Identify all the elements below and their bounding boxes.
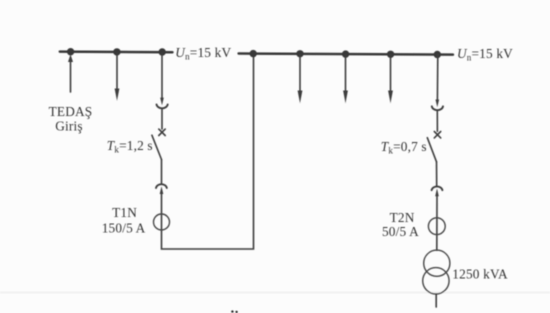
transformer TR1 secondary winding (423, 268, 449, 294)
node on busbar 1 at breaker feeder (159, 48, 166, 55)
feeder down arrow on busbar 1 (116, 53, 118, 90)
svg-text:T2N: T2N (390, 210, 415, 225)
node on busbar 1 at feeder arrow (113, 48, 120, 55)
scan artifact band (0, 292, 550, 294)
breaker B2 drawout contact (top): arrow into cup (436, 100, 440, 108)
breaker B2 drawout contact (bottom): cup with arrow up (432, 186, 443, 190)
CT T2N circle (428, 218, 445, 235)
busbar 2 (15 kV, right) (239, 54, 453, 55)
wire through CT to corner, up to busbar 2 (162, 55, 254, 250)
svg-text:150/5 A: 150/5 A (102, 221, 146, 236)
svg-text:Un=15 kV: Un=15 kV (175, 45, 231, 62)
transformer TR1 primary winding (424, 250, 450, 276)
wire (161, 109, 163, 129)
breaker B1 blade (open) (152, 135, 162, 159)
wire (436, 162, 438, 187)
busbar 1 (15 kV, left) (60, 50, 173, 53)
wire (436, 111, 438, 131)
node busbar2 incoming (250, 50, 257, 57)
smudge artifact (231, 310, 233, 312)
svg-text:Giriş: Giriş (55, 119, 83, 134)
node busbar2 feeder2 (342, 50, 349, 57)
wire through CT down to transformer (436, 196, 438, 250)
wire (161, 160, 163, 185)
busbar2 feeder down arrow 1 (299, 55, 301, 92)
breaker B1 drawout contact (bottom): cup with arrow up (156, 184, 167, 188)
wire: busbar1 to breaker B1 (161, 53, 163, 99)
breaker B1 fixed contact x (159, 129, 165, 135)
svg-text:TEDAŞ: TEDAŞ (49, 104, 93, 119)
svg-text:50/5 A: 50/5 A (382, 224, 419, 239)
node busbar2 transformer feeder (434, 51, 441, 58)
busbar2 feeder down arrow 3 (390, 55, 392, 92)
TEDAS incoming arrow (up) (70, 61, 72, 93)
breaker B2 fixed contact x (434, 132, 440, 138)
svg-text:Tk=0,7 s: Tk=0,7 s (381, 139, 427, 156)
node on busbar 1 at TEDAS infeed (67, 48, 74, 55)
node busbar2 feeder1 (296, 50, 303, 57)
node busbar2 feeder3 (387, 51, 394, 58)
svg-text:Un=15 kV: Un=15 kV (457, 46, 513, 63)
busbar2 feeder down arrow 2 (345, 55, 347, 92)
breaker B2 blade (open) (427, 138, 436, 162)
wire stub below transformer (435, 294, 437, 307)
svg-text:1250 kVA: 1250 kVA (452, 266, 508, 281)
svg-text:T1N: T1N (112, 205, 137, 220)
svg-text:Tk=1,2 s: Tk=1,2 s (107, 138, 153, 155)
breaker B1 drawout contact (top): arrow into cup (160, 98, 164, 106)
CT T1N circle (154, 214, 170, 230)
wire: busbar2 to breaker B2 (436, 55, 438, 101)
